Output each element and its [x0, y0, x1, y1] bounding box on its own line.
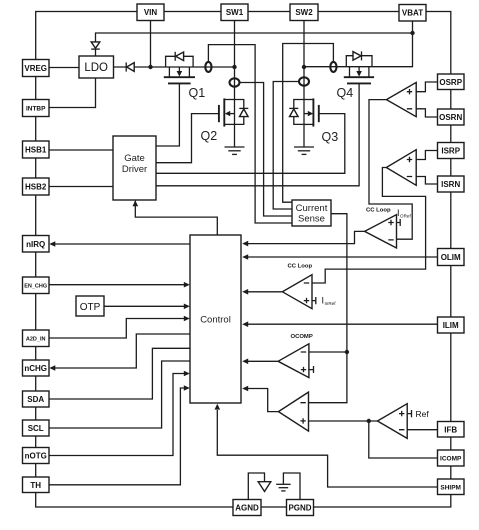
svg-text:SHIPM: SHIPM: [440, 484, 461, 491]
svg-text:OLIM: OLIM: [441, 253, 461, 262]
svg-text:A2D_IN: A2D_IN: [26, 337, 46, 343]
svg-text:HSB1: HSB1: [25, 146, 47, 155]
svg-text:Driver: Driver: [122, 164, 147, 175]
svg-text:VBAT: VBAT: [402, 9, 423, 18]
svg-text:VREG: VREG: [24, 64, 47, 73]
svg-text:SW1: SW1: [226, 8, 244, 17]
svg-text:VIN: VIN: [144, 8, 158, 17]
svg-text:LDO: LDO: [84, 62, 108, 74]
svg-text:Ref: Ref: [416, 409, 430, 419]
svg-text:Control: Control: [200, 315, 231, 326]
svg-text:INTBP: INTBP: [26, 106, 46, 113]
svg-text:SDA: SDA: [27, 395, 44, 404]
svg-text:Current: Current: [296, 203, 328, 214]
svg-text:ILIM: ILIM: [443, 321, 459, 330]
svg-text:OCOMP: OCOMP: [291, 334, 313, 340]
svg-text:SCL: SCL: [28, 424, 44, 433]
svg-text:PGND: PGND: [288, 504, 311, 513]
svg-text:nCHG: nCHG: [24, 364, 47, 373]
svg-text:Q2: Q2: [201, 129, 218, 143]
svg-text:ISRP: ISRP: [441, 147, 460, 156]
svg-text:ISRN: ISRN: [441, 180, 460, 189]
svg-text:Q1: Q1: [189, 86, 206, 100]
svg-text:nIRQ: nIRQ: [26, 240, 45, 249]
svg-text:AGND: AGND: [235, 504, 259, 513]
svg-text:CC Loop: CC Loop: [366, 208, 391, 214]
svg-text:EN_CHG: EN_CHG: [24, 284, 47, 290]
svg-text:CC Loop: CC Loop: [288, 264, 313, 270]
svg-text:ICOMP: ICOMP: [440, 456, 462, 463]
svg-text:OTP: OTP: [80, 302, 101, 313]
svg-text:InRef: InRef: [325, 301, 337, 306]
svg-text:OSRP: OSRP: [439, 78, 462, 87]
svg-text:Sense: Sense: [298, 214, 325, 225]
svg-text:SW2: SW2: [295, 8, 313, 17]
svg-text:HSB2: HSB2: [25, 183, 47, 192]
svg-text:Q4: Q4: [337, 86, 354, 100]
svg-text:Gate: Gate: [124, 153, 145, 164]
svg-text:TH: TH: [30, 481, 41, 490]
svg-text:Q3: Q3: [322, 130, 339, 144]
svg-text:OSRN: OSRN: [439, 113, 462, 122]
svg-text:nOTG: nOTG: [25, 452, 47, 461]
svg-text:IFB: IFB: [444, 425, 457, 434]
svg-text:ORef: ORef: [400, 214, 411, 219]
